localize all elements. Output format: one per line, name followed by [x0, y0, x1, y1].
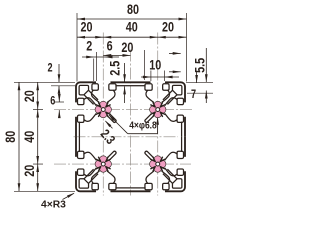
svg-text:20: 20	[162, 19, 174, 35]
svg-text:80: 80	[3, 131, 19, 143]
svg-text:20: 20	[22, 90, 38, 102]
svg-text:20: 20	[80, 19, 92, 35]
svg-text:80: 80	[127, 2, 139, 18]
svg-text:2.5: 2.5	[107, 61, 123, 76]
svg-text:2.3: 2.3	[97, 126, 118, 147]
svg-text:20: 20	[121, 40, 133, 56]
svg-text:40: 40	[126, 19, 138, 35]
svg-text:4×R3: 4×R3	[41, 200, 66, 211]
svg-text:7: 7	[191, 88, 196, 102]
svg-text:40: 40	[22, 131, 38, 143]
svg-text:2: 2	[86, 38, 92, 54]
svg-text:6: 6	[50, 94, 55, 108]
svg-text:2: 2	[47, 62, 52, 76]
svg-text:20: 20	[22, 165, 38, 177]
svg-text:5.5: 5.5	[192, 58, 208, 73]
svg-text:10: 10	[149, 57, 161, 73]
svg-text:6: 6	[107, 38, 113, 54]
svg-text:4×φ6.8: 4×φ6.8	[129, 120, 157, 131]
